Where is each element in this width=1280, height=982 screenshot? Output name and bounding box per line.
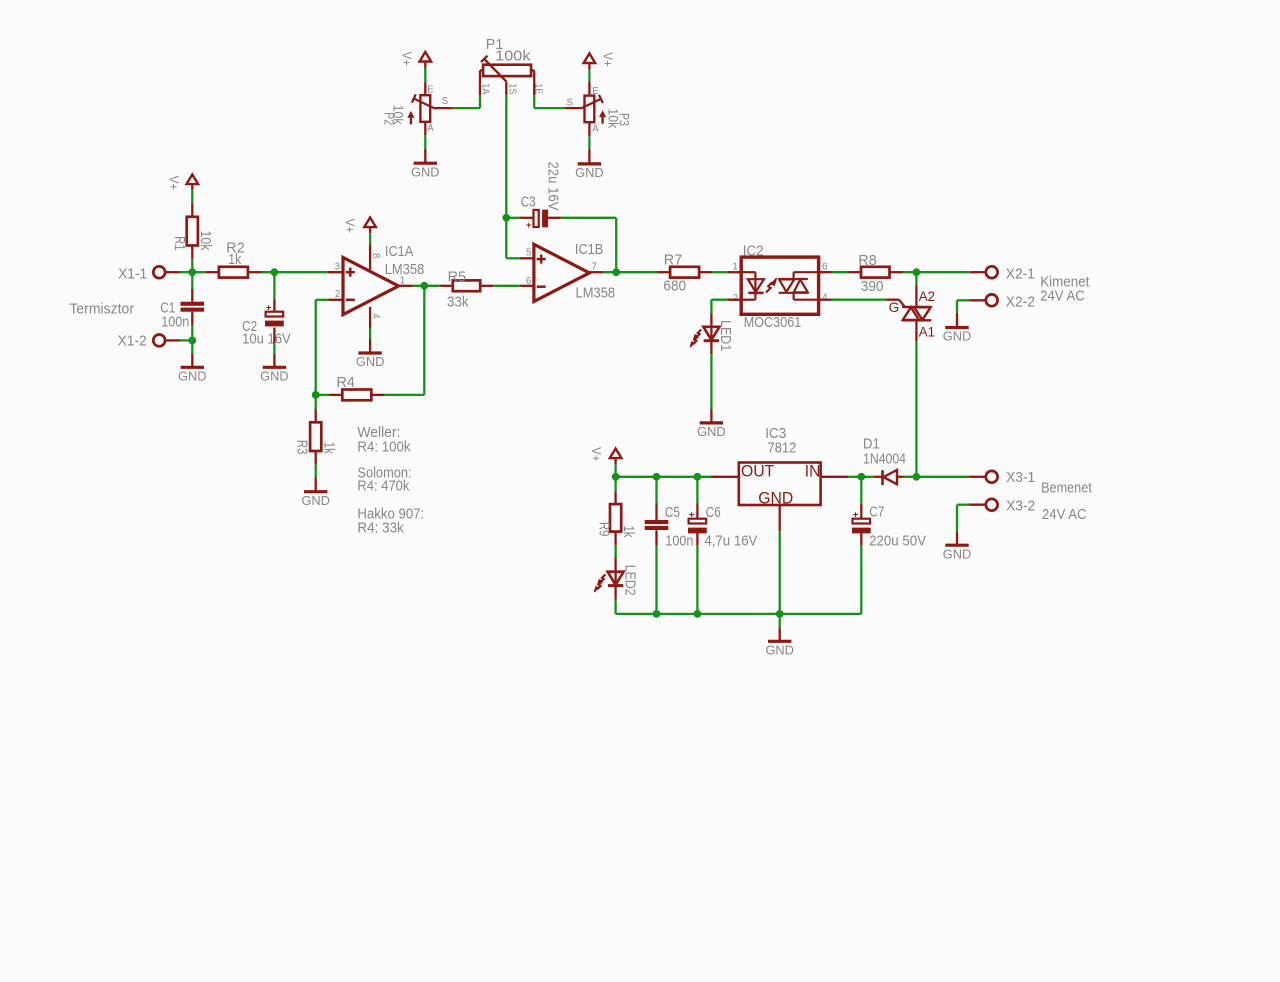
terminal X2-2 [986, 294, 998, 306]
value 33k (R5) [447, 294, 469, 310]
wire P2.S to P1.1A [453, 107, 480, 109]
wire LED1 to GND [710, 354, 712, 409]
wire LED1 top pin [710, 313, 712, 327]
label X2-2 [1006, 294, 1035, 310]
svg-text:X1-2: X1-2 [118, 333, 147, 349]
triac T1 [902, 307, 931, 320]
svg-text:E: E [427, 84, 434, 95]
wire R3 bottom pin [315, 451, 317, 464]
wire C7 top [860, 477, 862, 504]
value 1k (R3) [320, 442, 336, 455]
wire C2 to GND [273, 343, 275, 354]
pin number 6 (IC1B) [526, 276, 531, 287]
pin label A1 (T1) [919, 324, 935, 339]
wire to GND bar (X2-2) [956, 313, 958, 327]
wire X2-2 pad stub [969, 299, 985, 301]
wire to GND bar (C1) [191, 353, 193, 366]
wire P3 A pin [588, 122, 590, 136]
name R2 [226, 240, 244, 256]
capacitor C6 [688, 509, 707, 533]
svg-text:V+: V+ [589, 447, 604, 462]
wire R4 right pin [371, 394, 384, 396]
LED LED1 [690, 327, 719, 347]
wire LED2 top pin [614, 558, 616, 572]
wire P2 A to GND [424, 135, 426, 149]
label Termisztor [69, 301, 134, 317]
wire P1.1E to P3.S [534, 107, 565, 109]
pin label 1S (P1) [506, 83, 517, 94]
wire V+ to R1 [191, 190, 193, 203]
pin label A (P3) [592, 123, 599, 134]
wire X2-2 horizontal [957, 299, 969, 301]
wire X2-1 pad stub [970, 271, 986, 273]
wire R9 top pin [614, 491, 616, 504]
value 4,7u 16V (C6) [704, 533, 757, 549]
wire T1 A1 pin [915, 320, 917, 341]
junction rail at C5 [653, 473, 661, 481]
svg-text:IC2: IC2 [743, 243, 764, 259]
svg-text:7: 7 [592, 261, 597, 272]
name P1 [486, 37, 504, 53]
svg-text:GND: GND [943, 546, 972, 561]
wire C5 bottom [655, 545, 657, 614]
svg-text:220u 50V: 220u 50V [869, 533, 926, 549]
svg-text:1k: 1k [620, 526, 636, 539]
supply V+ (P3) [584, 53, 596, 69]
svg-text:1S: 1S [506, 83, 517, 94]
capacitor C7 [852, 509, 871, 533]
label Kimenet [1040, 274, 1089, 290]
svg-text:IC3: IC3 [765, 426, 786, 442]
junction node INP at C2 [271, 268, 279, 276]
wire pin2 feedback horizontal [316, 299, 329, 301]
resistor R8 [861, 267, 890, 278]
wire T1 A2 pin [915, 285, 917, 307]
pin number 2 (IC2) [733, 293, 738, 304]
pin number 4 (IC2) [822, 293, 828, 304]
wire node FB to R4 [316, 394, 330, 396]
supply V+ (12V rail) [610, 449, 622, 465]
value 10k (P3) [606, 108, 622, 129]
wire bottom rail to GND [779, 614, 781, 627]
wire to GND bar (LED1) [710, 409, 712, 422]
IC2 internal LED [741, 272, 764, 300]
value MOC3061 (IC2) [744, 315, 802, 331]
wire X1-2 node down [191, 340, 193, 353]
label V+ (P3) [600, 52, 615, 67]
name R4 [337, 375, 355, 391]
wire R5 right pin [480, 285, 493, 287]
svg-text:V+: V+ [600, 52, 615, 67]
potentiometer P1 body [483, 65, 531, 76]
name P2 [382, 112, 398, 125]
svg-text:100k: 100k [495, 49, 531, 65]
adjust arrow (P3) [599, 110, 606, 123]
wire R5 to IC1B pin6 [493, 285, 520, 287]
svg-text:X2-1: X2-1 [1006, 266, 1035, 282]
label X1-2 [118, 333, 147, 349]
value 390 (R8) [861, 279, 884, 295]
wire R1 bottom pin [191, 246, 193, 259]
wire IC1A pin3 stub [328, 271, 344, 273]
svg-text:24V AC: 24V AC [1040, 288, 1085, 304]
wire LED2 to bottom rail [614, 600, 616, 614]
svg-text:C6: C6 [706, 505, 721, 521]
label 24V AC (X3) [1042, 507, 1087, 523]
note Hakko value [357, 521, 404, 537]
svg-text:R4: 100k: R4: 100k [357, 439, 411, 455]
name D1 [863, 437, 880, 453]
wire R7 to IC2 pin1 [712, 271, 728, 273]
label V+ (R1) [167, 176, 182, 191]
wire R8 left pin [848, 271, 861, 273]
ground GND (under X2-2) [943, 328, 972, 344]
wire IC3 GND pin [779, 505, 781, 531]
name C1 [160, 300, 175, 316]
svg-text:LED2: LED2 [621, 565, 637, 596]
wire IC1A pin2 stub [329, 299, 344, 301]
svg-text:1N4004: 1N4004 [863, 451, 906, 467]
pin label S (P3) [567, 98, 574, 109]
wire C1 bottom pin [191, 312, 193, 325]
pin label G (T1) [889, 300, 900, 315]
wire OUTB vertical [615, 218, 617, 272]
name IC1A [385, 244, 414, 260]
wire C1 to node GND1 [191, 325, 193, 340]
wire net TEMP segment X1-1 to R2 [180, 271, 206, 273]
wire node INP down to C2 [273, 272, 275, 299]
terminal X1-1 [153, 266, 165, 278]
value 220u 50V (C7) [869, 533, 926, 549]
svg-text:GND: GND [575, 165, 604, 180]
op-amp IC1A [343, 257, 399, 314]
name LED1 [717, 320, 733, 351]
wire IC1B pin7 stub [589, 271, 602, 273]
wire R1 to node TEMP [191, 259, 193, 272]
wire to GND bar (bottom) [779, 627, 781, 640]
potentiometer P2 [412, 94, 434, 121]
wire MT2 node down [915, 272, 917, 285]
svg-text:IC1B: IC1B [575, 242, 603, 258]
wire R5 left pin [440, 285, 453, 287]
pin number 8 (IC1A) [370, 253, 381, 258]
svg-text:GND: GND [697, 424, 726, 439]
svg-text:A2: A2 [919, 289, 935, 304]
name IC1B [575, 242, 603, 258]
capacitor C2 [265, 302, 284, 326]
svg-text:V+: V+ [167, 176, 182, 191]
terminal X3-1 [986, 471, 998, 483]
pin label A2 (T1) [919, 289, 935, 304]
P1 right lead 1E [531, 70, 534, 95]
wire OUTB to R7 [603, 271, 657, 273]
ground GND (under R3) [301, 492, 330, 508]
note Weller value [357, 439, 411, 455]
wire C7 bottom [860, 545, 862, 614]
junction rail at C6 [694, 473, 702, 481]
pin number 2 (IC1A) [335, 289, 340, 300]
name IC2 [743, 243, 764, 259]
wire R4 left pin [329, 394, 342, 396]
wire C3 left pin [519, 217, 533, 219]
label X2-1 [1006, 266, 1035, 282]
P1 wiper [481, 56, 506, 82]
wire R9 bottom pin [614, 532, 616, 545]
wire IC1A pin4 to GND [369, 328, 371, 340]
svg-text:33k: 33k [447, 294, 469, 310]
value 1k (R2) [228, 252, 242, 268]
wire R1 top pin [191, 204, 193, 217]
svg-text:24V AC: 24V AC [1042, 507, 1087, 523]
svg-text:4,7u 16V: 4,7u 16V [704, 533, 757, 549]
wire to GND bar (X3-2) [956, 531, 958, 544]
label Bemenet [1041, 480, 1092, 496]
svg-text:10u 16V: 10u 16V [242, 331, 291, 347]
label X3-2 [1006, 499, 1035, 515]
resistor R2 [219, 267, 248, 278]
svg-text:Termisztor: Termisztor [69, 301, 134, 317]
wire IC2 pin6 stub [819, 271, 832, 273]
wire SET to pin5 horizontal [506, 257, 520, 259]
name C5 [665, 505, 680, 521]
pin label S (P2) [442, 96, 449, 107]
wire R8 right pin [890, 271, 903, 273]
wire to GND bar (P2) [424, 149, 426, 162]
name R1 [171, 236, 187, 251]
wire C6 top pin [696, 504, 698, 519]
svg-text:100n: 100n [665, 533, 693, 549]
svg-text:GND: GND [943, 329, 972, 344]
svg-text:P2: P2 [382, 112, 398, 125]
junction node at C7 [857, 473, 865, 481]
wire X2-2 down [956, 300, 958, 313]
ground GND (under LED1) [697, 423, 726, 439]
supply V+ (R1) [187, 175, 199, 191]
svg-text:2: 2 [335, 289, 340, 300]
supply V+ (P2) [420, 52, 432, 68]
svg-text:GND: GND [411, 164, 440, 179]
wire IN pin to D1 [848, 476, 874, 478]
wire C6 bottom [696, 545, 698, 614]
junction node OUTB [612, 268, 620, 276]
regulator IC3 box [739, 463, 821, 506]
value 100k (P1) [495, 49, 531, 65]
wire IC2 pin2 stub [728, 299, 741, 301]
svg-text:100n: 100n [161, 314, 189, 330]
wire to GND bar (R3) [315, 477, 317, 490]
resistor R5 [453, 280, 480, 291]
wire D1 to X3-1 [903, 476, 969, 478]
diode D1 [883, 470, 898, 485]
wire IC1A pin8 stub [369, 245, 371, 270]
wire C3 to OUTB horizontal [561, 217, 616, 219]
svg-text:C5: C5 [665, 505, 680, 521]
svg-text:R9: R9 [595, 522, 611, 537]
name R9 [595, 522, 611, 537]
note Hakko [357, 507, 424, 523]
svg-text:680: 680 [663, 279, 686, 295]
wire C7 bottom pin [860, 532, 862, 545]
svg-text:V+: V+ [400, 52, 415, 67]
junction bottom rail at C6 [694, 610, 702, 618]
wire net OUTA segment [413, 285, 440, 287]
svg-text:R4: 470k: R4: 470k [357, 478, 410, 494]
svg-text:R4: 33k: R4: 33k [357, 521, 404, 537]
svg-text:1E: 1E [533, 83, 544, 94]
value LM358 (IC1A) [385, 262, 425, 278]
adjust arrow (P2) [407, 111, 414, 124]
wire IC2 pin1 stub [728, 271, 741, 273]
wire P2 E pin [424, 82, 426, 95]
wire R8 to X2-1 [903, 271, 970, 273]
wire C2 bottom pin [273, 328, 275, 344]
pin number 1 (IC1A) [400, 276, 405, 287]
pin label E (P3) [592, 86, 599, 97]
name R5 [448, 269, 466, 285]
ground GND (under IC1A) [356, 353, 385, 369]
ground GND (under C1) [178, 367, 207, 383]
wire C1 top pin [191, 289, 193, 302]
value 100n (C1) [161, 314, 189, 330]
svg-text:LM358: LM358 [576, 285, 616, 301]
resistor R7 [670, 267, 699, 278]
op-amp IC1B [534, 244, 590, 301]
supply V+ (IC1A) [364, 218, 376, 234]
wire LED2 bottom pin [614, 586, 616, 600]
svg-text:4: 4 [822, 293, 828, 304]
wire IC1B pin6 stub [520, 285, 535, 287]
wire R2 left pin [206, 271, 219, 273]
IC2 photon bolt [766, 278, 777, 292]
svg-text:7812: 7812 [768, 440, 797, 456]
pin label OUT (IC3) [741, 463, 774, 481]
wire P1 wiper down to C3 node [505, 95, 507, 218]
svg-text:R5: R5 [448, 269, 466, 285]
wire P1 1A lead green [479, 95, 481, 108]
pin label 1E (P1) [533, 83, 544, 94]
wire X3-2 down [956, 505, 958, 532]
value 100n (C5) [665, 533, 693, 549]
wire bottom GND rail [616, 613, 862, 615]
label V+ (12V rail) [589, 447, 604, 462]
junction bottom rail at IC3 GND [776, 610, 784, 618]
pin number 4 (IC1A) [370, 313, 381, 319]
resistor R4 [342, 390, 371, 401]
value 1k (R9) [620, 526, 636, 539]
name C7 [869, 504, 884, 520]
wire V+ stub to rail [614, 464, 616, 477]
P1 left lead 1A [480, 70, 483, 95]
pin label A (P2) [427, 123, 434, 134]
pin label GND (IC3) [758, 490, 793, 508]
svg-text:R3: R3 [293, 440, 309, 455]
wire IC2 pin6 to R8 [832, 271, 848, 273]
LED LED2 [594, 572, 623, 592]
svg-text:LED1: LED1 [717, 320, 733, 351]
wire R3 to GND [315, 464, 317, 477]
potentiometer P3 [581, 95, 603, 122]
capacitor C1 [181, 302, 205, 312]
wire IC3 GND to rail [779, 531, 781, 614]
terminal X3-2 [986, 499, 998, 511]
value LM358 (IC1B) [576, 285, 616, 301]
pin label IN (IC3) [805, 463, 821, 481]
wire IC1A pin1 stub [399, 285, 413, 287]
ground GND (bottom rail) [765, 641, 794, 657]
svg-text:S: S [442, 96, 449, 107]
svg-text:X3-2: X3-2 [1006, 499, 1035, 515]
LED2 body line [614, 572, 616, 586]
label V+ (P2) [400, 52, 415, 67]
svg-text:6: 6 [526, 276, 531, 287]
wire C7 top pin [860, 504, 862, 518]
svg-text:GND: GND [758, 490, 793, 508]
svg-text:A: A [592, 123, 599, 134]
wire pin2 down to LED1 [710, 300, 712, 313]
wire to GND bar (IC1A) [369, 340, 371, 353]
svg-text:R7: R7 [664, 253, 682, 269]
wire V+ to P2 E [424, 68, 426, 83]
wire R4 to OUTA vertical [423, 286, 425, 395]
ground GND (under X3-2) [943, 545, 972, 561]
label X3-1 [1006, 470, 1035, 486]
value 680 (R7) [663, 279, 686, 295]
wire P3 A to GND [588, 136, 590, 150]
wire C3 right pin [548, 217, 561, 219]
wire IC2 pin2 horizontal [711, 299, 728, 301]
pin label E (P2) [427, 84, 434, 95]
wire IC1A pin4 stub [369, 307, 371, 328]
pin number 5 (IC1B) [526, 248, 531, 259]
svg-text:V+: V+ [342, 219, 357, 234]
wire X3-2 pad stub [969, 504, 985, 506]
wire P3 E pin [588, 82, 590, 96]
name C3 [521, 194, 536, 210]
svg-text:1: 1 [732, 262, 737, 273]
junction X1-2 node [188, 337, 196, 345]
junction node OUTA [420, 282, 428, 290]
svg-text:G: G [889, 300, 900, 315]
svg-text:IN: IN [805, 463, 821, 481]
svg-text:R8: R8 [858, 253, 876, 269]
wire IC2 pin4 to gate [832, 299, 887, 301]
wire T1 A1 down to IN rail [915, 341, 917, 477]
wire V+ to IC1A pin8 [369, 233, 371, 245]
label 24V AC (X2) [1040, 288, 1085, 304]
svg-text:MOC3061: MOC3061 [744, 315, 802, 331]
svg-text:10k: 10k [197, 231, 213, 252]
wire C6 bottom pin [696, 532, 698, 545]
wire P1 1E lead green [533, 95, 535, 108]
svg-text:A1: A1 [919, 324, 935, 339]
svg-text:R1: R1 [171, 236, 187, 251]
name R7 [664, 253, 682, 269]
triac gate lead [887, 300, 905, 307]
svg-text:C3: C3 [521, 194, 536, 210]
name P3 [617, 113, 633, 126]
svg-text:OUT: OUT [741, 463, 774, 481]
svg-text:Bemenet: Bemenet [1041, 480, 1092, 496]
wire X3-1 pad stub [970, 476, 986, 478]
wire node FB down [315, 395, 317, 409]
wire LED1 bottom pin [710, 341, 712, 355]
pin number 6 (IC2) [822, 262, 827, 273]
label V+ (IC1A) [342, 219, 357, 234]
svg-text:1A: 1A [479, 83, 490, 94]
svg-text:A: A [427, 123, 434, 134]
IC2 internal triac [779, 272, 819, 300]
pin number 1 (IC2) [732, 262, 737, 273]
